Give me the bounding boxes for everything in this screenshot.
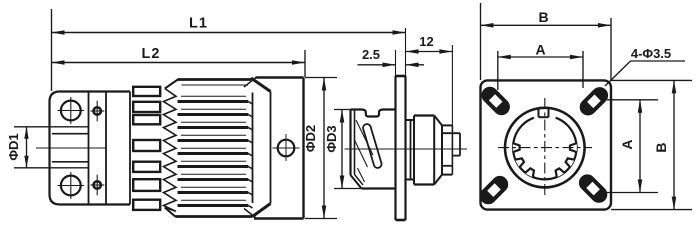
svg-text:ΦD3: ΦD3 <box>324 125 339 152</box>
svg-text:B: B <box>653 142 669 152</box>
svg-text:L1: L1 <box>189 16 208 32</box>
svg-text:A: A <box>619 139 635 149</box>
svg-text:2.5: 2.5 <box>362 47 380 62</box>
svg-text:ΦD1: ΦD1 <box>6 133 21 160</box>
svg-text:B: B <box>538 9 548 25</box>
svg-text:L2: L2 <box>142 46 161 62</box>
svg-text:A: A <box>535 42 545 58</box>
svg-text:12: 12 <box>419 34 433 49</box>
svg-text:4-Φ3.5: 4-Φ3.5 <box>631 46 671 61</box>
svg-text:ΦD2: ΦD2 <box>303 125 318 152</box>
